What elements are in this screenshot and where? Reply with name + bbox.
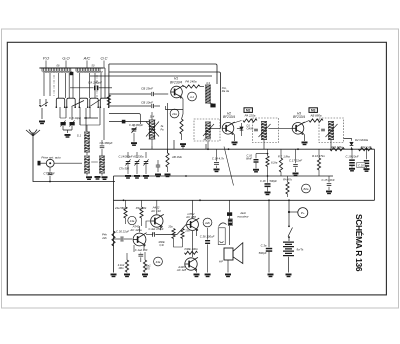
svg-text:SCHÉMA R 136: SCHÉMA R 136 [354, 214, 365, 272]
svg-text:M3: M3 [311, 109, 316, 113]
alignment circle 43a [154, 257, 163, 266]
battery positive circle P+ [289, 211, 298, 213]
svg-text:Ra 3a: Ra 3a [222, 89, 230, 93]
wire: feedback line 2 [109, 72, 221, 129]
ground trimmer a [125, 175, 131, 177]
svg-text:CB 10nF: CB 10nF [141, 100, 153, 104]
svg-text:Prise ant. auto: Prise ant. auto [41, 156, 61, 160]
transistor T6 [187, 219, 199, 231]
power switch [288, 228, 293, 237]
svg-text:68nF: 68nF [246, 156, 252, 160]
svg-text:22k: 22k [101, 236, 107, 240]
coil in M3 [328, 122, 334, 140]
transistor T7 [185, 258, 197, 270]
svg-text:44205: 44205 [204, 138, 212, 141]
ground C38 [268, 274, 274, 276]
trimmer capacitor row c [144, 161, 149, 163]
wire: jack to speaker [229, 200, 231, 245]
coil in M1 [205, 122, 211, 138]
aerial trimmer switch [40, 99, 48, 107]
svg-text:B2a: B2a [304, 187, 309, 191]
svg-text:G.O: G.O [62, 56, 69, 61]
svg-text:CB 25nF: CB 25nF [141, 87, 153, 91]
wire: mech link dash-dot 2 [96, 75, 98, 97]
wire: B+ drop right [374, 149, 376, 200]
svg-text:1Mo: 1Mo [118, 266, 124, 270]
ground battery [286, 274, 292, 276]
svg-text:HP: HP [219, 260, 223, 264]
coil S.2 (GO antenna) [84, 156, 90, 173]
wire: S4-M1 ground loop [152, 140, 206, 149]
svg-text:3,3: 3,3 [206, 81, 210, 85]
svg-text:C.3a: C.3a [261, 243, 267, 247]
wire: lower bus left stub [114, 175, 144, 177]
svg-text:BF233/4: BF233/4 [223, 115, 235, 119]
svg-text:BF233/4: BF233/4 [170, 80, 182, 84]
wire: H2 H3 base links [237, 128, 242, 130]
ground audio left rail [111, 274, 117, 276]
ground speaker [225, 274, 231, 276]
ground C10 [131, 142, 137, 144]
ground H3 [302, 142, 308, 144]
ground under S.2 [86, 173, 88, 176]
wire: detector line [344, 139, 352, 150]
switch wafer contact feet [56, 106, 58, 108]
svg-text:D2 OA90a: D2 OA90a [355, 138, 369, 142]
svg-text:C.18: C.18 [260, 179, 266, 183]
speaker HP [224, 248, 233, 260]
svg-text:C.14/380pF AC 230a: C.14/380pF AC 230a [118, 155, 144, 159]
svg-text:CA 240pF: CA 240pF [88, 81, 103, 85]
trimmer arrow in M3 [326, 124, 338, 137]
capacitor C20 50uF [366, 149, 368, 159]
dashed transformer box M1 [194, 119, 220, 141]
svg-text:S.1: S.1 [77, 134, 82, 138]
svg-text:O.C: O.C [100, 56, 107, 61]
ground under trimmers [63, 126, 72, 133]
transistor H2 [222, 123, 234, 135]
svg-text:PA 220a: PA 220a [245, 114, 256, 118]
svg-text:500pF: 500pF [259, 251, 267, 255]
svg-text:P40E 100A: P40E 100A [184, 247, 197, 251]
wire: line to mixer [90, 75, 212, 77]
trimmer arrow in M2 [259, 124, 271, 137]
resistor on left column [107, 95, 110, 105]
jack body outline [218, 228, 225, 245]
wire: label leaders [46, 61, 104, 68]
svg-text:M2: M2 [246, 109, 251, 113]
svg-text:C.15 10nF: C.15 10nF [321, 178, 334, 182]
antenna [26, 130, 40, 146]
wire: H3 emitter [303, 134, 304, 141]
wire: output pair leads [155, 200, 196, 272]
pot wiper arrow [224, 147, 234, 186]
transistor H1 [171, 86, 183, 98]
svg-text:AC 128: AC 128 [176, 268, 187, 272]
dashed transformer box M2 [253, 118, 279, 143]
wire: mech link dash-dot [53, 75, 55, 96]
wire: H2 collector [233, 121, 241, 124]
trimmer capacitor CC140 b [70, 122, 75, 125]
band switch comb teeth group 1 [42, 68, 71, 71]
coil S.4 [149, 120, 156, 139]
transistor T5 [151, 215, 163, 227]
svg-text:C.14 4,7n: C.14 4,7n [212, 157, 225, 161]
transistor T4 [133, 233, 146, 246]
junction blob [122, 120, 126, 124]
boxed label M2 [244, 108, 252, 113]
ground C36 [205, 274, 211, 276]
svg-text:23a: 23a [184, 230, 190, 233]
junction blob under comb gap [70, 72, 74, 75]
svg-text:CA 380pF: CA 380pF [100, 141, 113, 145]
resistor AB 8,2k [266, 156, 269, 167]
ground under S.3 [101, 173, 103, 176]
ground H2 [232, 142, 238, 144]
wire: T4 leads [134, 226, 144, 252]
wire: lower bus [143, 175, 333, 177]
ground trimmer b [134, 175, 140, 177]
svg-text:43a: 43a [156, 260, 161, 264]
ground T7 emitter [194, 274, 200, 276]
ground on loop [182, 144, 184, 149]
band switch comb bar [39, 67, 103, 69]
svg-text:13a: 13a [130, 219, 135, 223]
svg-text:Om,: Om, [222, 86, 227, 90]
svg-text:C.10 480pF: C.10 480pF [129, 123, 143, 127]
coil in M2 [261, 122, 267, 140]
svg-text:C.20: C.20 [358, 163, 364, 167]
diode D2 OA90 [350, 142, 354, 145]
ground resistor 1M [124, 274, 130, 276]
svg-text:3,3k: 3,3k [159, 244, 164, 247]
wire: antenna down lead [33, 145, 115, 182]
boxed label M3 [309, 108, 317, 113]
svg-text:AC 132: AC 132 [150, 209, 161, 213]
svg-text:P.O: P.O [43, 56, 49, 61]
wire: comb right end column [103, 68, 105, 98]
wire: M1 to bus [207, 141, 209, 149]
wire: comb drop wires [44, 73, 101, 98]
wire: H1 collector/emitter [166, 85, 185, 114]
wire: H2 emitter [233, 134, 234, 141]
ground mid coils [95, 176, 101, 178]
battery 9V [283, 242, 294, 243]
jack spring contact [219, 223, 227, 227]
alignment circle A.2 [188, 92, 197, 101]
wire: M2 M3 coil drops to bus [264, 140, 331, 150]
svg-text:C.30 22uF: C.30 22uF [116, 230, 129, 234]
alignment circle 24a [170, 109, 179, 118]
car-antenna jack [46, 159, 54, 167]
wire: battery to ground [288, 257, 290, 273]
svg-text:A/C: A/C [83, 56, 91, 61]
wire: wafer drops to coils [60, 107, 104, 140]
S.4 trimmer arrows [146, 122, 159, 137]
svg-text:8,2ka: 8,2ka [271, 161, 278, 165]
wire: H3 collector [303, 121, 309, 124]
wire: battery rail [288, 200, 290, 241]
svg-text:A2b: A2b [204, 221, 210, 225]
ground resistor 470 [142, 274, 148, 276]
wire: mixer links [109, 114, 150, 125]
wire: audio top bus [114, 199, 375, 201]
svg-text:PA 240a: PA 240a [185, 80, 197, 84]
svg-text:BF233/4: BF233/4 [293, 115, 305, 119]
svg-text:C.4a1 470pF: C.4a1 470pF [149, 227, 164, 231]
wire: T5 leads [146, 200, 161, 234]
svg-text:A.2: A.2 [189, 95, 195, 99]
svg-text:20a: 20a [167, 226, 173, 229]
coil S.3 (A/C) [99, 156, 105, 173]
switch levers [72, 100, 101, 107]
trimmer arrow in M1 [203, 124, 214, 136]
capacitor in M2 [254, 128, 258, 130]
wire: feedback line to oscillator coil [109, 64, 217, 84]
svg-text:C.6 10pF: C.6 10pF [69, 116, 81, 120]
alignment circle A2b [203, 218, 212, 227]
transistor H3 [292, 123, 304, 135]
wire: jack to coils [54, 162, 82, 164]
core below oscillator coil [208, 102, 213, 105]
alignment circle 13a [128, 216, 136, 224]
wire: speaker ground lead [227, 260, 229, 273]
wire: left column [108, 64, 110, 106]
dashed transformer box M3 [319, 118, 344, 143]
wire: coil interconnects [60, 118, 100, 162]
svg-text:AB 1Mo: AB 1Mo [171, 155, 182, 159]
ground below aerial switch [41, 108, 43, 119]
headphone jack [227, 212, 232, 216]
wire: audio left rail [113, 176, 115, 273]
schematic frame [7, 42, 386, 295]
band switch comb teeth group 2 [76, 68, 100, 71]
wire: RF bottom bus [140, 148, 375, 150]
svg-text:C.1a2 100: C.1a2 100 [135, 248, 148, 252]
svg-text:24a: 24a [171, 112, 177, 116]
wire: S4 leads [151, 112, 153, 146]
svg-text:500pF: 500pF [270, 179, 278, 183]
resistor PA 470 [182, 114, 184, 119]
svg-text:AB 680a: AB 680a [309, 114, 321, 118]
switch wafer contacts [56, 98, 108, 107]
trimmer capacitor row b [135, 161, 140, 163]
svg-text:9v/Ts: 9v/Ts [297, 248, 304, 252]
wire: coil S1 leads [86, 125, 88, 155]
wire: mixer vertical to AB1M [167, 103, 169, 153]
alignment circle B2a [302, 184, 311, 193]
wire: M2 to H3 [268, 127, 292, 129]
oscillator coil [205, 85, 211, 103]
svg-text:C.36 100uF: C.36 100uF [200, 235, 215, 239]
svg-text:ecouteur: ecouteur [237, 214, 249, 218]
wire: trimmer drops [128, 152, 146, 174]
capacitor C12 [156, 164, 160, 166]
ground C12 [155, 174, 161, 176]
svg-text:AC 126a: AC 126a [129, 228, 142, 232]
svg-text:P+: P+ [301, 211, 305, 215]
ground trimmer c [143, 175, 149, 177]
capacitor in M3 [321, 128, 325, 130]
